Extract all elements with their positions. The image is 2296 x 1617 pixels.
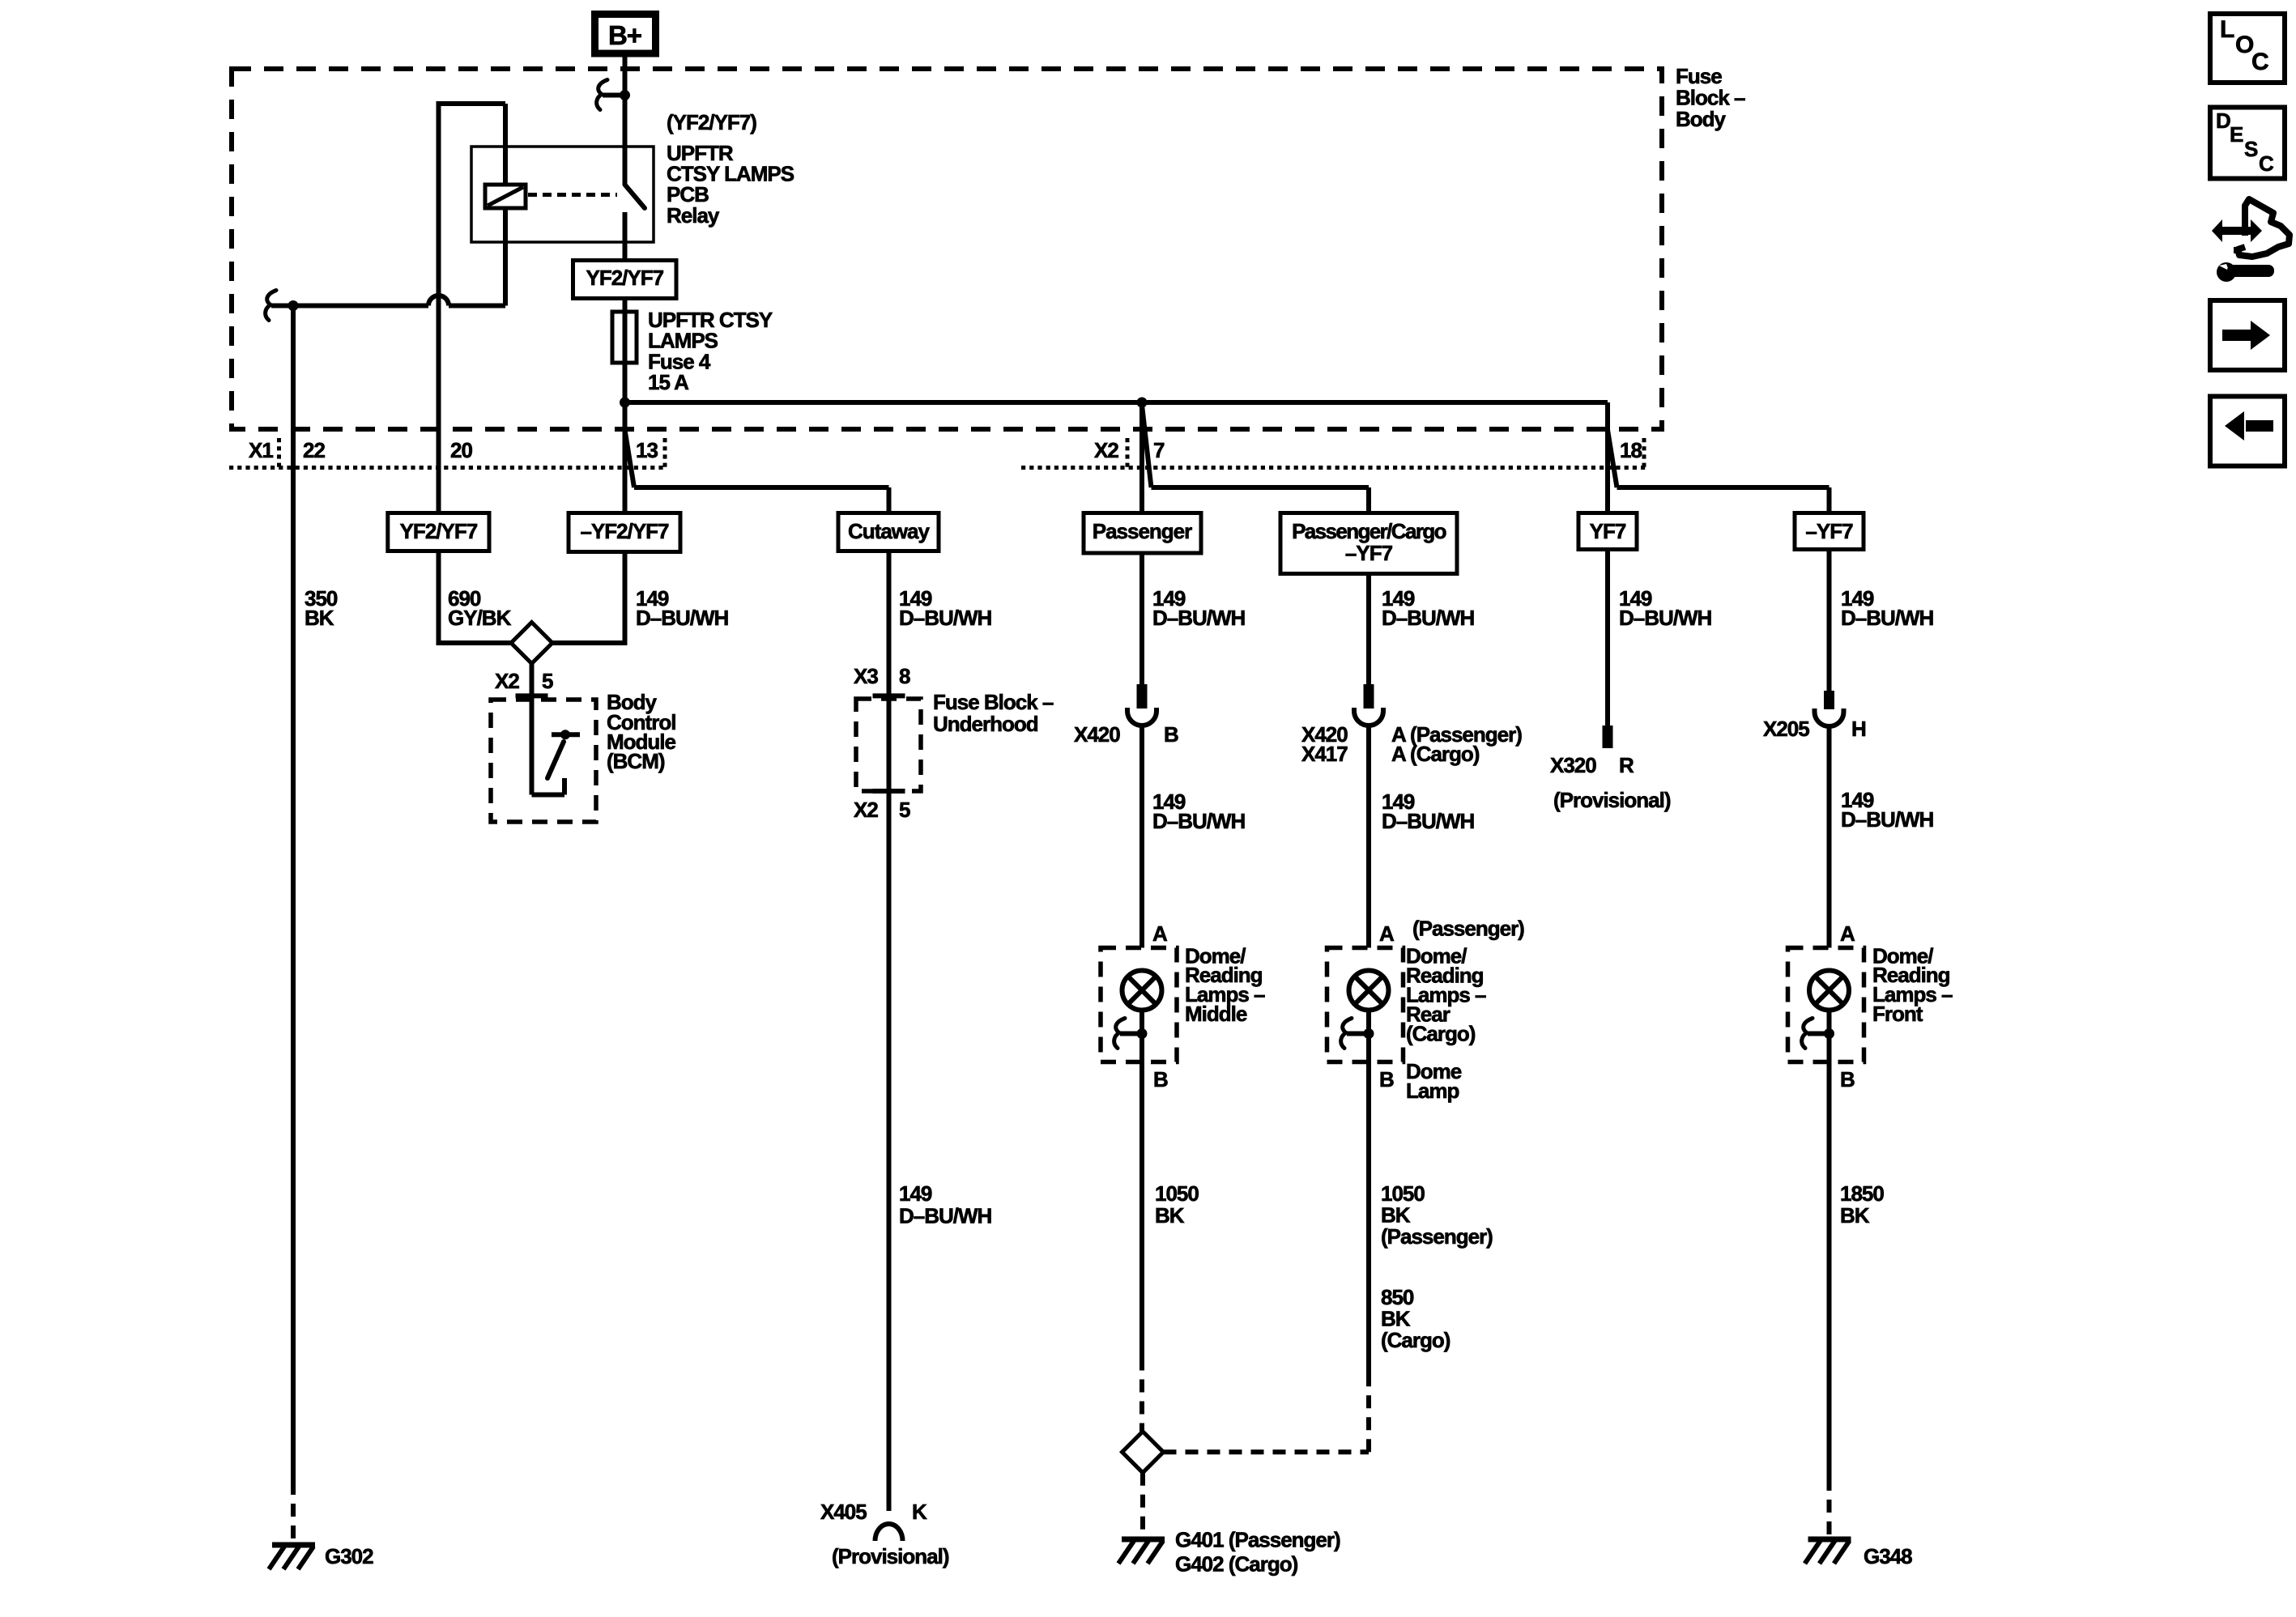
bus junction node	[620, 398, 630, 408]
svg-text:YF2/YF7: YF2/YF7	[400, 519, 478, 543]
Dome/Reading Lamps - Middle dashed box	[1101, 948, 1177, 1062]
wire fuse to bus	[623, 363, 628, 402]
wrench	[2217, 262, 2236, 282]
svg-text:S: S	[2244, 137, 2258, 161]
svg-text:5: 5	[899, 798, 910, 822]
splice curl at B+ feed	[597, 80, 607, 110]
connector X420 pin B	[1137, 684, 1148, 709]
svg-text:G302: G302	[325, 1544, 373, 1568]
svg-text:(BCM): (BCM)	[607, 749, 665, 773]
svg-text:C: C	[2251, 49, 2269, 75]
svg-text:G401 (Passenger): G401 (Passenger)	[1175, 1528, 1340, 1552]
svg-text:D–BU/WH: D–BU/WH	[1382, 809, 1475, 833]
label box Passenger	[1084, 513, 1201, 554]
svg-text:A (Cargo): A (Cargo)	[1391, 742, 1480, 766]
wire 149 D-BU/WH (pin13)	[623, 552, 628, 644]
svg-text:15 A: 15 A	[648, 370, 689, 394]
fuse block - body dashed outline	[232, 69, 1662, 429]
svg-text:X417: X417	[1301, 742, 1348, 766]
svg-text:A: A	[1840, 921, 1855, 946]
wire 149 D-BU/WH (pass/cargo)	[1366, 574, 1371, 685]
svg-text:13: 13	[636, 438, 658, 462]
branch pin 7 to Passenger/Cargo	[1142, 405, 1152, 487]
svg-text:B: B	[1153, 1067, 1168, 1091]
svg-text:R: R	[1619, 753, 1634, 777]
svg-text:(Provisional): (Provisional)	[1553, 788, 1671, 812]
svg-text:149: 149	[899, 1181, 932, 1206]
svg-text:D–BU/WH: D–BU/WH	[1382, 606, 1475, 630]
svg-text:YF2/YF7: YF2/YF7	[586, 266, 664, 290]
svg-text:–YF7: –YF7	[1345, 541, 1393, 565]
Body Control Module dashed box	[491, 700, 596, 822]
svg-text:Block –: Block –	[1676, 86, 1745, 110]
svg-text:D–BU/WH: D–BU/WH	[1152, 809, 1246, 833]
svg-text:D–BU/WH: D–BU/WH	[899, 1204, 992, 1228]
svg-text:(Cargo): (Cargo)	[1381, 1328, 1450, 1352]
wire 149 D-BU/WH (YF7)	[1605, 550, 1610, 728]
svg-text:Relay: Relay	[667, 203, 720, 228]
wire diamond to ground	[1140, 1473, 1145, 1538]
fuse UPFTR CTSY LAMPS Fuse 4 15A	[612, 312, 637, 363]
svg-text:K: K	[912, 1500, 927, 1524]
svg-text:8: 8	[899, 664, 910, 688]
wire hop over pin20 leg	[428, 296, 449, 306]
svg-text:Lamp: Lamp	[1406, 1079, 1459, 1103]
svg-text:D–BU/WH: D–BU/WH	[899, 606, 992, 630]
svg-text:18: 18	[1620, 438, 1642, 462]
power feed B+ box	[595, 15, 656, 54]
label box YF2/YF7 (relay output)	[573, 261, 677, 299]
wire pin 18	[1605, 402, 1610, 513]
svg-text:BK: BK	[1381, 1307, 1411, 1331]
svg-text:–YF2/YF7: –YF2/YF7	[580, 519, 669, 543]
svg-text:D–BU/WH: D–BU/WH	[1841, 606, 1934, 630]
svg-text:X2: X2	[854, 798, 878, 822]
connector X405 pin K (provisional)	[875, 1524, 903, 1541]
Dome/Reading Lamps - Rear dashed box	[1327, 948, 1404, 1062]
icon DESC	[2210, 108, 2285, 179]
lamp rear bulb	[1349, 971, 1389, 1011]
splice diamond S1	[511, 623, 552, 664]
connector strip dotted line (X1 group)	[229, 466, 665, 470]
svg-text:D–BU/WH: D–BU/WH	[1841, 807, 1934, 832]
svg-text:1050: 1050	[1381, 1181, 1425, 1206]
dashed link to cargo ground wire	[1164, 1449, 1370, 1454]
wire cutaway 149 D-BU/WH	[887, 551, 892, 1512]
svg-text:X2: X2	[495, 669, 519, 693]
splice curl left	[266, 291, 276, 321]
svg-text:7: 7	[1153, 438, 1165, 462]
svg-text:X320: X320	[1550, 753, 1596, 777]
svg-text:X420: X420	[1074, 722, 1120, 747]
svg-text:D–BU/WH: D–BU/WH	[636, 606, 729, 630]
svg-text:BK: BK	[305, 606, 334, 630]
label box Passenger/Cargo -YF7	[1280, 513, 1457, 574]
svg-text:Underhood: Underhood	[933, 712, 1038, 736]
ground G302	[272, 1543, 315, 1548]
junction node pin 7	[1137, 398, 1148, 408]
connector X2 pin 5 (BCM)	[516, 693, 548, 698]
svg-text:A: A	[1152, 921, 1168, 946]
svg-text:Middle: Middle	[1185, 1002, 1247, 1026]
wire 1050 BK	[1139, 1062, 1144, 1358]
wire pin 7 down	[1139, 402, 1144, 513]
wire B+ down to relay	[623, 57, 628, 147]
strip separator X1	[277, 438, 281, 470]
label box Cutaway	[838, 513, 939, 551]
wire label box to fuse	[623, 299, 628, 313]
strip separator after 13	[663, 438, 667, 470]
connector X205 pin H	[1824, 691, 1834, 709]
svg-text:Cutaway: Cutaway	[848, 519, 930, 543]
strip separator X2	[1126, 438, 1130, 470]
lamp middle bulb	[1122, 971, 1162, 1011]
bus wire to pin 18	[625, 400, 1608, 405]
svg-text:X405: X405	[820, 1500, 867, 1524]
wire 690 GY/BK	[437, 551, 441, 644]
connector strip dotted line (X2 group)	[1021, 466, 1646, 470]
BCM internal switch	[530, 701, 535, 795]
svg-text:E: E	[2230, 122, 2243, 147]
svg-text:Fuse Block –: Fuse Block –	[933, 690, 1054, 714]
svg-text:YF7: YF7	[1590, 519, 1626, 543]
svg-text:X1: X1	[249, 438, 273, 462]
svg-text:20: 20	[450, 438, 472, 462]
svg-text:Fuse: Fuse	[1676, 64, 1722, 88]
connector X2 pin 5 (underhood)	[873, 789, 905, 794]
relay linkage (dashed)	[528, 193, 617, 197]
strip separator after 18	[1642, 438, 1646, 470]
svg-text:5: 5	[542, 669, 553, 693]
svg-text:(Passenger): (Passenger)	[1381, 1224, 1493, 1249]
svg-text:D–BU/WH: D–BU/WH	[1152, 606, 1246, 630]
lamp case ground curl	[1114, 1019, 1125, 1049]
svg-text:–YF7: –YF7	[1805, 519, 1853, 543]
icon wiring navigation (arrow/wrench)	[2212, 219, 2262, 242]
wire 149 D-BU/WH (-YF7)	[1827, 550, 1832, 691]
label box -YF7	[1795, 513, 1864, 550]
relay coil	[485, 185, 526, 208]
svg-text:(YF2/YF7): (YF2/YF7)	[667, 110, 756, 134]
wire 1850 BK	[1827, 1062, 1832, 1479]
ground G348	[1808, 1537, 1851, 1543]
svg-text:B+: B+	[608, 20, 641, 50]
wire 149 D-BU/WH (passenger)	[1139, 553, 1144, 684]
lamp front bulb	[1809, 971, 1849, 1011]
connector X420/X417 pin A	[1364, 684, 1374, 709]
svg-text:Body: Body	[1676, 107, 1727, 131]
lamp case ground curl	[1341, 1019, 1352, 1049]
svg-text:X205: X205	[1763, 717, 1809, 741]
svg-text:C: C	[2259, 151, 2274, 176]
svg-text:850: 850	[1381, 1285, 1414, 1309]
ground G401/G402	[1122, 1537, 1165, 1543]
svg-text:22: 22	[303, 438, 325, 462]
svg-text:L: L	[2220, 16, 2234, 43]
label box YF2/YF7 (pin 20)	[388, 513, 489, 551]
svg-text:G402 (Cargo): G402 (Cargo)	[1175, 1551, 1298, 1576]
label box -YF2/YF7	[569, 513, 680, 552]
svg-text:BK: BK	[1381, 1203, 1411, 1228]
branch pin 13 to Cutaway	[625, 430, 635, 487]
connector X320 pin R (provisional stub)	[1603, 726, 1613, 748]
lamp case ground curl	[1802, 1019, 1813, 1049]
wire relay coil feed (pin 20 leg)	[437, 101, 441, 513]
svg-text:B: B	[1379, 1067, 1394, 1091]
wire diamond to BCM	[530, 663, 535, 701]
svg-text:Passenger/Cargo: Passenger/Cargo	[1292, 519, 1446, 543]
svg-text:G348: G348	[1864, 1544, 1912, 1568]
svg-text:(Passenger): (Passenger)	[1412, 917, 1524, 941]
svg-text:B: B	[1840, 1067, 1855, 1091]
wire pin 13 to -YF2/YF7	[623, 402, 628, 513]
svg-text:1850: 1850	[1840, 1181, 1884, 1206]
wire 1050 BK / 850 BK	[1366, 1062, 1371, 1375]
icon LOC	[2210, 14, 2285, 83]
splice diamond S2	[1122, 1432, 1164, 1473]
wire 350 BK	[291, 306, 296, 1483]
Fuse Block - Underhood dashed box	[856, 699, 921, 791]
Dome/Reading Lamps - Front dashed box	[1788, 948, 1864, 1062]
svg-text:B: B	[1164, 722, 1178, 747]
connector X3 pin 8	[873, 693, 905, 698]
icon forward arrow	[2210, 300, 2285, 370]
svg-text:D: D	[2216, 109, 2231, 133]
svg-text:(Provisional): (Provisional)	[832, 1544, 949, 1568]
wire coil to return	[503, 208, 508, 306]
branch pin 18 to -YF7	[1608, 430, 1617, 487]
svg-text:X3: X3	[854, 664, 878, 688]
relay switch arm	[623, 147, 628, 185]
relay UPFTR CTSY LAMPS PCB Relay box	[471, 147, 654, 242]
svg-text:BK: BK	[1155, 1203, 1185, 1228]
svg-text:(Cargo): (Cargo)	[1406, 1022, 1476, 1046]
svg-text:H: H	[1851, 717, 1866, 741]
svg-text:D–BU/WH: D–BU/WH	[1619, 606, 1712, 630]
svg-text:A: A	[1379, 921, 1395, 946]
svg-text:X2: X2	[1094, 438, 1118, 462]
junction node wire 22	[288, 300, 299, 311]
relay coil return wire to off-page curl	[449, 304, 505, 309]
svg-text:Front: Front	[1872, 1002, 1923, 1026]
svg-text:BK: BK	[1840, 1203, 1870, 1228]
svg-text:1050: 1050	[1155, 1181, 1199, 1206]
svg-text:GY/BK: GY/BK	[448, 606, 512, 630]
svg-text:Passenger: Passenger	[1093, 519, 1192, 543]
label box YF7	[1578, 513, 1637, 550]
icon back arrow	[2210, 397, 2285, 466]
